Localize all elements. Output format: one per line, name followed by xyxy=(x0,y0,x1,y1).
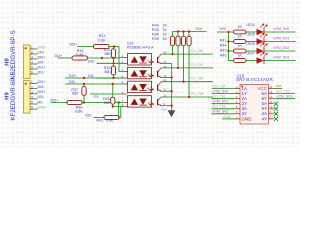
no-connect U18 pin 10 xyxy=(274,107,278,111)
svg-text:13: 13 xyxy=(269,90,272,94)
wire R40 stubs xyxy=(112,94,114,107)
svg-text:SN74LVC14ADR: SN74LVC14ADR xyxy=(236,77,273,82)
svg-text:DI3-: DI3- xyxy=(85,113,93,117)
wire H9 pin 3 xyxy=(34,93,38,95)
wire collector row FLY_DI2 xyxy=(161,81,213,83)
U18 pin 8 (4Y) xyxy=(269,118,274,120)
opto channel 4 LED pair xyxy=(131,99,147,105)
svg-text:5V0: 5V0 xyxy=(196,27,203,31)
opto channel 3 LED pair xyxy=(131,84,147,90)
svg-text:24V: 24V xyxy=(38,50,45,54)
LED symbol LED4 xyxy=(257,29,264,36)
svg-text:LED7: LED7 xyxy=(246,52,255,56)
svg-text:NC: NC xyxy=(38,100,44,104)
wire U18 pin13 xyxy=(274,93,295,95)
junction emitter 4 xyxy=(171,105,173,107)
opto channel 3 pin numbers xyxy=(122,78,167,94)
wire collector row FLY_DI3 xyxy=(161,96,213,98)
svg-text:5V0: 5V0 xyxy=(276,84,282,88)
svg-text:1K: 1K xyxy=(163,24,168,28)
svg-text:1K: 1K xyxy=(238,34,243,38)
U18 pin 11 (5A) xyxy=(269,103,274,105)
junction emitter 3 xyxy=(171,90,173,92)
connector H8 pin 3 xyxy=(30,58,34,60)
svg-text:11: 11 xyxy=(269,100,272,104)
svg-text:4: 4 xyxy=(31,96,33,100)
wire H8 pin 2 xyxy=(34,53,38,55)
opto channel 1 phototransistor xyxy=(158,54,161,64)
opto channel 4 light arrows xyxy=(148,102,154,106)
svg-text:DI0+: DI0+ xyxy=(70,42,78,46)
resistor R34 body xyxy=(72,56,88,60)
connector H9 pin 5 xyxy=(30,103,34,105)
wire DI2- row to opto pin6 xyxy=(65,83,124,85)
svg-text:2: 2 xyxy=(31,85,33,89)
opto channel 2 LED pair xyxy=(131,70,147,76)
wire elbow down to opto pin3 xyxy=(119,58,124,72)
opto channel 3 phototransistor xyxy=(158,82,161,92)
junction elbow R41 row xyxy=(118,116,120,118)
svg-text:LED5: LED5 xyxy=(246,33,255,37)
opto channel 1 emitter arrowhead xyxy=(160,62,162,64)
wire U18 pin 7 xyxy=(222,118,235,120)
svg-text:FLY_DI1: FLY_DI1 xyxy=(191,63,204,67)
wire U18 VCC xyxy=(274,88,282,90)
resistor R31 body xyxy=(94,44,110,48)
svg-text:DI3+: DI3+ xyxy=(38,90,46,94)
svg-text:DI2+: DI2+ xyxy=(69,74,77,78)
connector H9 body xyxy=(24,81,30,114)
LED resistor references xyxy=(220,39,227,58)
svg-text:6: 6 xyxy=(31,106,33,110)
svg-text:HTM_SV1: HTM_SV1 xyxy=(213,100,229,104)
svg-text:6.8K: 6.8K xyxy=(75,110,83,114)
resistor R41 body xyxy=(104,115,119,119)
svg-text:680: 680 xyxy=(105,70,111,74)
resistor R37 body xyxy=(82,87,86,96)
wire R31 to node xyxy=(109,46,119,48)
junction rail dots xyxy=(177,30,179,32)
wire DI3+ to R38 xyxy=(51,102,68,104)
junction LED rail row2 xyxy=(227,40,229,42)
svg-text:DI0-: DI0- xyxy=(38,60,46,64)
wire U18 pin 6 xyxy=(212,113,235,115)
svg-text:DI1+: DI1+ xyxy=(55,54,63,58)
wire H9 pin 1 xyxy=(34,83,38,85)
svg-text:HTM_SV3: HTM_SV3 xyxy=(277,95,293,99)
svg-text:GND: GND xyxy=(224,115,232,119)
wire pull-up drops to collector rows xyxy=(173,46,190,97)
wire H8 pin 6 xyxy=(34,73,38,75)
resistor LED5 series body xyxy=(234,40,247,44)
wire resistor to LED6 xyxy=(246,50,257,52)
junction collector FLY_DI2 xyxy=(182,81,184,83)
svg-text:DI1-: DI1- xyxy=(38,70,46,74)
wire pull-up top stubs xyxy=(173,32,190,37)
svg-text:680: 680 xyxy=(104,101,110,105)
wire H8 pin 1 xyxy=(34,48,38,50)
wire resistor to LED5 xyxy=(246,41,257,43)
svg-text:DI2-: DI2- xyxy=(69,80,77,84)
wire H8 pin 5 xyxy=(34,68,38,70)
svg-text:HTM_SV0: HTM_SV0 xyxy=(274,27,290,31)
svg-text:680: 680 xyxy=(72,92,78,96)
wire R38 to opto pin7 xyxy=(82,102,124,104)
wire R41 elbow up to opto pin8 xyxy=(113,107,121,118)
svg-text:DI2+: DI2+ xyxy=(38,80,46,84)
LED light rays LED4 xyxy=(260,24,267,29)
wire collector row FLY_DI0 xyxy=(161,53,213,55)
wire rail to LED resistor row3 xyxy=(229,50,234,52)
resistor R40 body xyxy=(111,97,115,104)
no-connect U18 pin 8 xyxy=(274,117,278,121)
svg-text:GND: GND xyxy=(161,107,169,111)
svg-text:DI1+: DI1+ xyxy=(38,65,46,69)
connector H9 pin 4 xyxy=(30,98,34,100)
U18 pin 2 (1Y) xyxy=(235,93,240,95)
svg-text:5: 5 xyxy=(31,66,33,70)
wire R33 stubs xyxy=(113,58,115,78)
wire DI1+ to R34 xyxy=(58,57,73,59)
connector H8 pin 4 xyxy=(30,63,34,65)
svg-text:5: 5 xyxy=(31,101,33,105)
resistor pull-up 2 body xyxy=(176,36,180,46)
wire H8 pin 3 xyxy=(34,58,38,60)
opto channel 3 box xyxy=(128,81,152,92)
ground symbol xyxy=(168,110,176,117)
svg-text:HTM_SV1: HTM_SV1 xyxy=(274,36,290,40)
svg-text:1K: 1K xyxy=(163,37,168,41)
wire H9 pin 4 xyxy=(34,98,38,100)
opto channel 2 light arrows xyxy=(148,73,154,77)
wire H9 pin 6 xyxy=(34,108,38,110)
wire resistor to LED7 xyxy=(246,60,257,62)
junction collector FLY_DI0 xyxy=(171,53,173,55)
wire resistor to LED4 xyxy=(246,31,257,33)
svg-text:R44: R44 xyxy=(220,44,227,48)
junction R37 bottom xyxy=(83,101,85,103)
svg-text:6.8K: 6.8K xyxy=(98,38,106,42)
no-connect U18 pin 9 xyxy=(274,112,278,116)
junction R32/DI0- xyxy=(112,62,114,64)
opto channel 3 LED bar xyxy=(139,90,147,92)
LED symbol LED6 xyxy=(257,48,264,55)
svg-text:1K: 1K xyxy=(238,44,243,48)
svg-text:DI0+: DI0+ xyxy=(38,55,46,59)
junction LED rail top xyxy=(227,31,229,33)
LED light rays LED7 xyxy=(260,52,267,57)
svg-text:GND: GND xyxy=(242,116,253,121)
wire opto pin8 feed xyxy=(121,106,124,108)
wire U18 pin 4 xyxy=(212,103,235,105)
svg-text:4Y: 4Y xyxy=(261,116,267,121)
svg-text:LED6: LED6 xyxy=(246,42,255,46)
opto channel 3 emitter arrowhead xyxy=(160,90,162,92)
junction R33 top xyxy=(112,57,114,59)
connector H9 pin 3 xyxy=(30,93,34,95)
opto channel 2 box xyxy=(128,67,152,78)
opto channel 2 phototransistor xyxy=(158,68,161,78)
wire DI0+ to R31 xyxy=(77,46,94,48)
wire 5V0 pull-up rail xyxy=(173,31,207,33)
junction LED rail row3 xyxy=(227,50,229,52)
svg-text:1K: 1K xyxy=(238,53,243,57)
svg-text:FLY_DI0: FLY_DI0 xyxy=(213,84,226,88)
opto channel 1 pin numbers xyxy=(122,51,167,65)
svg-text:1K: 1K xyxy=(163,32,168,36)
connector H8 pin 2 xyxy=(30,53,34,55)
svg-text:R35: R35 xyxy=(152,28,159,32)
opto channel 4 input pin stubs xyxy=(124,103,128,107)
opto channel 1 box xyxy=(128,54,152,65)
svg-text:FLY_DI1: FLY_DI1 xyxy=(213,95,226,99)
U18 pin 4 (2Y) xyxy=(235,103,240,105)
U18 pin 9 (4A) xyxy=(269,113,274,115)
wire elbow down to opto pin1 xyxy=(119,47,124,58)
wire collector row FLY_DI1 xyxy=(161,67,213,69)
svg-text:FLY_DI0: FLY_DI0 xyxy=(191,49,204,53)
junction DI2-/R37 xyxy=(83,83,85,85)
resistor LED4 series body xyxy=(234,30,247,34)
wire LED rail top xyxy=(217,31,234,33)
U18 pin1 marker xyxy=(241,85,243,87)
svg-text:FLY_DI2: FLY_DI2 xyxy=(213,105,226,109)
svg-text:R45: R45 xyxy=(220,49,227,53)
svg-text:KF2EDGVR-6P-S: KF2EDGVR-6P-S xyxy=(10,71,17,120)
svg-text:FLY_DI3: FLY_DI3 xyxy=(191,92,204,96)
wire emitter rail xyxy=(161,64,172,111)
LED symbol LED5 xyxy=(257,38,264,45)
wire H9 pin 5 xyxy=(34,103,38,105)
junction R38 output xyxy=(118,101,120,103)
resistor pull-up 3 body xyxy=(181,36,185,46)
junction R33/DI1- xyxy=(112,77,114,79)
svg-text:DI3-: DI3- xyxy=(38,95,46,99)
opto channel 1 LED bar xyxy=(139,62,147,64)
svg-text:PS2805C-4-F3-A: PS2805C-4-F3-A xyxy=(127,45,154,49)
junction collector FLY_DI1 xyxy=(177,67,179,69)
svg-text:5V0: 5V0 xyxy=(220,27,227,31)
wire U18 pin 5 xyxy=(212,108,235,110)
junction DI2- branch xyxy=(112,83,114,85)
opto channel 1 LED pair xyxy=(131,56,147,62)
wire R34 to node xyxy=(88,57,120,59)
resistor R38 body xyxy=(67,100,82,104)
LED symbol LED7 xyxy=(257,57,264,64)
junction collector FLY_DI3 xyxy=(188,96,190,98)
U18 pin 10 (5Y) xyxy=(269,108,274,110)
opto channel 2 emitter arrowhead xyxy=(160,76,162,78)
wire U18 pin 3 xyxy=(212,98,235,100)
svg-text:680: 680 xyxy=(105,52,111,56)
U18 pin 5 (3A) xyxy=(235,108,240,110)
connector H8 pin1 marker xyxy=(25,47,27,49)
U18 body xyxy=(240,85,269,125)
resistor LED6 series body xyxy=(234,49,247,53)
wire DI3- to R41 xyxy=(94,117,105,119)
U18 pin 14 (VCC) xyxy=(269,88,274,90)
LED light rays LED6 xyxy=(260,43,267,48)
opto channel 4 phototransistor xyxy=(158,97,161,106)
opto channel 3 light arrows xyxy=(148,87,154,91)
wire R32 stubs xyxy=(113,47,115,64)
svg-text:GND: GND xyxy=(38,105,46,109)
svg-text:R41: R41 xyxy=(97,118,104,122)
opto channel 4 pin numbers xyxy=(122,93,167,107)
resistor R33 body xyxy=(111,66,115,75)
resistor pull-up 1 body xyxy=(170,36,174,46)
svg-text:DI2-: DI2- xyxy=(38,85,46,89)
svg-text:2: 2 xyxy=(31,51,33,55)
svg-text:HTM_SV2: HTM_SV2 xyxy=(274,46,290,50)
U18 pin 7 (GND) xyxy=(235,118,240,120)
wire LED rail vertical xyxy=(229,32,234,61)
svg-text:GND: GND xyxy=(38,45,46,49)
connector H8 pin 5 xyxy=(30,68,34,70)
svg-text:FLY_DI3: FLY_DI3 xyxy=(277,90,290,94)
wire U18 pin 1 xyxy=(212,88,235,90)
wire U18 pin12 xyxy=(274,98,295,100)
wire elbow down to R41 row xyxy=(118,103,120,118)
svg-text:1: 1 xyxy=(31,46,33,50)
svg-text:R39: R39 xyxy=(152,37,159,41)
junction R40 bottom xyxy=(112,105,114,107)
opto channel 4 box xyxy=(128,96,152,107)
svg-text:R41: R41 xyxy=(220,39,227,43)
svg-text:R40: R40 xyxy=(152,24,159,28)
junction DI2+ xyxy=(83,77,85,79)
wire DI0- row to opto pin2 xyxy=(97,62,124,64)
connector H9 pin 6 xyxy=(30,108,34,110)
opto channel 3 input pin stubs xyxy=(124,84,128,94)
U18 pin 6 (3Y) xyxy=(235,113,240,115)
wire emitter row 4 xyxy=(161,105,172,107)
svg-text:R36: R36 xyxy=(152,32,159,36)
no-connect U18 pin 11 xyxy=(274,102,278,106)
svg-text:4: 4 xyxy=(31,61,33,65)
LED light rays LED5 xyxy=(260,33,267,38)
connector H8 body xyxy=(24,45,30,79)
junction node ch1 xyxy=(113,45,115,47)
connector H9 pin1 marker xyxy=(25,83,27,85)
opto channel 2 LED bar xyxy=(139,76,147,78)
svg-text:3: 3 xyxy=(31,90,33,94)
pull-up resistor references xyxy=(152,24,168,41)
wire H8 pin 4 xyxy=(34,63,38,65)
svg-text:DI2-: DI2- xyxy=(94,94,100,98)
svg-text:LED4: LED4 xyxy=(246,23,255,27)
svg-text:14: 14 xyxy=(269,85,272,89)
wire emitter row 3 xyxy=(161,90,172,92)
resistor pull-up 4 body xyxy=(187,36,191,46)
wire LED6 to HTM_SV2 xyxy=(264,50,296,52)
wire LED4 to HTM_SV0 xyxy=(264,31,296,33)
connector H9 pin 2 xyxy=(30,88,34,90)
svg-text:FLY_DI2: FLY_DI2 xyxy=(191,77,204,81)
wire LED5 to HTM_SV1 xyxy=(264,41,296,43)
svg-text:HTM_SV2: HTM_SV2 xyxy=(213,110,229,114)
wire H9 pin 2 xyxy=(34,88,38,90)
svg-text:1K: 1K xyxy=(163,28,168,32)
svg-text:HTM_SV0: HTM_SV0 xyxy=(213,90,229,94)
svg-text:6.8K: 6.8K xyxy=(106,118,114,122)
U18 pin 13 (6A) xyxy=(269,93,274,95)
svg-text:HTM_SV3: HTM_SV3 xyxy=(274,55,290,59)
U18 pin 1 (1A) xyxy=(235,88,240,90)
svg-text:6: 6 xyxy=(31,71,33,75)
junction emitter 2 xyxy=(171,76,173,78)
opto channel 4 LED bar xyxy=(139,104,147,106)
wire opto pin6 feed xyxy=(90,93,124,95)
wire emitter row 2 xyxy=(161,76,172,78)
svg-text:DI0-: DI0- xyxy=(88,59,96,63)
opto channel 2 input pin stubs xyxy=(124,72,128,79)
connector H8 pin 6 xyxy=(30,73,34,75)
resistor R32 body xyxy=(111,49,115,58)
svg-text:1: 1 xyxy=(31,80,33,84)
wire DI1- row to opto pin4 xyxy=(97,77,124,79)
opto channel 4 emitter arrowhead xyxy=(160,104,162,106)
opto channel 1 input pin stubs xyxy=(124,58,128,64)
wire U18 pin 2 xyxy=(212,93,235,95)
opto channel 2 pin numbers xyxy=(122,64,167,78)
junction node ch2 xyxy=(101,57,103,59)
wire LED7 to HTM_SV3 xyxy=(264,60,296,62)
svg-text:R46: R46 xyxy=(220,54,227,58)
svg-text:DI3+: DI3+ xyxy=(51,98,59,102)
connector H8 pin 1 xyxy=(30,48,34,50)
connector H9 pin 1 xyxy=(30,83,34,85)
wire rail to LED resistor row2 xyxy=(229,41,234,43)
svg-text:10: 10 xyxy=(269,105,272,109)
wire DI2+ row to opto pin5 xyxy=(65,77,124,79)
resistor LED7 series body xyxy=(234,59,247,63)
svg-text:1K: 1K xyxy=(238,25,243,29)
wire R37 stubs xyxy=(83,84,85,103)
wire vertical DI2- branch xyxy=(112,84,114,94)
U18 pin 12 (6Y) xyxy=(269,98,274,100)
svg-text:DI1-: DI1- xyxy=(88,74,96,78)
opto channel 1 light arrows xyxy=(148,60,154,64)
U18 pin 3 (2A) xyxy=(235,98,240,100)
svg-text:3: 3 xyxy=(31,56,33,60)
svg-text:12: 12 xyxy=(269,95,272,99)
